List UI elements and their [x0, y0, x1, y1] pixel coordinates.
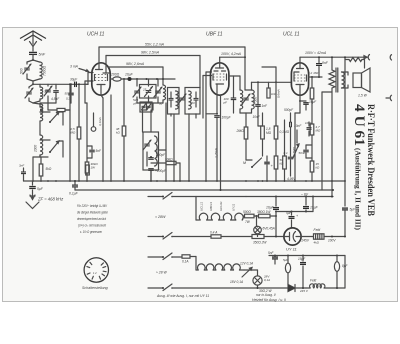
- svg-text:5kΩ: 5kΩ: [46, 167, 52, 171]
- svg-text:s. 10³ Ω gemessen: s. 10³ Ω gemessen: [80, 230, 102, 234]
- field coil Feld: [301, 228, 345, 245]
- svg-text:pF: pF: [223, 100, 228, 104]
- capacitor 30pF series grid UCH: [70, 78, 78, 88]
- svg-text:10nF: 10nF: [253, 115, 261, 119]
- svg-text:8nF: 8nF: [322, 61, 329, 65]
- trimmer 30: [44, 84, 52, 103]
- terminal circle: [91, 113, 96, 131]
- wire x103: [98, 95, 103, 181]
- tube UBF11: [211, 63, 229, 95]
- capacitor 100pF diode: [223, 76, 241, 113]
- svg-text:0,1A: 0,1A: [264, 278, 270, 282]
- resistor 4.7M: [310, 124, 321, 161]
- wire grid to tube UCH: [87, 73, 89, 85]
- wire IF2 top to UCL grid: [252, 67, 292, 90]
- svg-text:Schalterstellung: Schalterstellung: [82, 286, 108, 290]
- svg-text:100V: 100V: [328, 239, 336, 243]
- svg-text:6V0,45A: 6V0,45A: [263, 227, 275, 231]
- svg-text:10μF: 10μF: [266, 206, 275, 210]
- capacitor 100pF cath: [148, 110, 166, 159]
- tube socket diagram: [84, 258, 108, 282]
- svg-text:UCH 11: UCH 11: [87, 32, 105, 38]
- capacitor 8nF: [316, 56, 329, 77]
- capacitor 5nF antenna: [29, 47, 46, 61]
- trimmer between IF1: [179, 97, 185, 99]
- wire x322 speaker return: [322, 92, 332, 190]
- svg-text:UCL 11: UCL 11: [283, 32, 300, 38]
- lamp 6V 0.45A: [254, 216, 275, 237]
- svg-text:100pF: 100pF: [222, 116, 232, 120]
- oscillator trimmer pair: [154, 79, 162, 103]
- output transformer primary: [329, 56, 335, 197]
- mains bus row1 top: [148, 193, 246, 200]
- resistor 5k: [39, 157, 52, 181]
- capacitor 1nF: [253, 82, 269, 126]
- wire antenna to grid line: [32, 81, 34, 84]
- svg-text:10μF: 10μF: [309, 100, 317, 104]
- svg-text:≈ 28 W: ≈ 28 W: [156, 271, 168, 275]
- svg-text:380Ω 1W: 380Ω 1W: [257, 210, 271, 214]
- wire band bottom: [33, 155, 48, 181]
- heater string row2: [196, 257, 244, 271]
- svg-text:UY11: UY11: [232, 203, 236, 211]
- resistor 380ohm 1W: [257, 210, 277, 218]
- svg-text:100pF: 100pF: [156, 153, 166, 157]
- svg-text:98V, 2,6mA: 98V, 2,6mA: [126, 62, 145, 66]
- wire IF2 bottom: [240, 113, 252, 126]
- svg-text:MΩ: MΩ: [71, 131, 76, 135]
- capacitor 10uF ps: [266, 197, 279, 238]
- resistor 1W top: [86, 165, 90, 175]
- lamp row2: [244, 270, 270, 288]
- capacitor 5uF left: [29, 181, 43, 200]
- IF2 coil left: [240, 76, 243, 113]
- resistor 1k grid stopper: [267, 82, 277, 98]
- ground symbol: [26, 196, 39, 209]
- capacitor 0.1uF rail: [69, 180, 79, 196]
- svg-text:100V ≈ 42mA: 100V ≈ 42mA: [305, 51, 327, 55]
- trimmer box lower: [140, 102, 152, 112]
- wire 1.7mA: [215, 95, 221, 190]
- resistor 30k 1W: [85, 103, 98, 181]
- svg-text:2000: 2000: [34, 145, 38, 153]
- svg-text:UY 11: UY 11: [286, 247, 297, 252]
- svg-text:Ausg. III wie Ausg. I, nur mi: Ausg. III wie Ausg. I, nur mit UY 11: [156, 294, 209, 298]
- svg-text:nur in Ausg. II: nur in Ausg. II: [256, 293, 276, 297]
- wire x166 x174: [165, 103, 167, 181]
- fuse 0.1A row2: [182, 255, 196, 264]
- wire x245 drop: [245, 57, 252, 90]
- svg-text:350Ω 2W: 350Ω 2W: [253, 241, 267, 245]
- capacitor 10uF anode: [125, 73, 134, 82]
- resistor 350ohm 2W: [252, 235, 284, 245]
- resistor 1.5M switch: [292, 130, 299, 158]
- svg-text:10μF: 10μF: [125, 73, 134, 77]
- svg-text:0,4 A: 0,4 A: [210, 231, 217, 235]
- node dots anode row: [123, 78, 125, 80]
- capacitor 10nF UCL: [305, 121, 312, 136]
- coil antenna 2: [33, 84, 43, 103]
- heater labels row1: [200, 201, 236, 211]
- wire B+ right rail: [342, 59, 356, 236]
- svg-text:MΩ: MΩ: [266, 131, 272, 135]
- capacitor 100uF: [148, 169, 167, 181]
- svg-text:UCL11: UCL11: [200, 202, 204, 211]
- svg-text:30μF: 30μF: [70, 78, 78, 82]
- switch row2 top: [148, 253, 182, 260]
- coil antenna 3: [33, 103, 43, 112]
- capacitor 5nF row2: [268, 251, 278, 264]
- rail row2 top: [269, 255, 345, 289]
- IF can 1 right: [185, 88, 200, 115]
- svg-text:245V: 245V: [301, 239, 310, 243]
- capacitor 50pF hang: [65, 83, 74, 103]
- svg-text:pF: pF: [133, 102, 138, 106]
- rectifier UY11: [284, 228, 301, 245]
- svg-text:3 mA: 3 mA: [70, 65, 79, 69]
- oscillator coil box lower: [143, 132, 159, 170]
- svg-text:200Ω: 200Ω: [110, 73, 120, 77]
- resistor screen UCL: [310, 77, 314, 124]
- wire 100V 42mA: [300, 51, 370, 63]
- capacitor 5uF ps: [286, 211, 298, 228]
- connector mark right mid: [390, 95, 391, 100]
- svg-text:MΩ: MΩ: [314, 71, 319, 75]
- wire x111: [110, 95, 112, 181]
- capacitor 5nF mid: [87, 146, 102, 158]
- svg-text:100V, 4,2mA: 100V, 4,2mA: [221, 52, 242, 56]
- svg-text:50nF: 50nF: [299, 151, 306, 155]
- hum coil: [344, 56, 365, 68]
- svg-text:12V 0,1A: 12V 0,1A: [240, 262, 253, 266]
- wire x85 lower: [85, 102, 87, 104]
- note text block: [77, 204, 108, 234]
- IF2 coil right: [252, 90, 258, 113]
- svg-text:(Uᵍ²)·Uₘ mit Instrument: (Uᵍ²)·Uₘ mit Instrument: [78, 224, 107, 228]
- svg-text:Feld: Feld: [314, 228, 321, 232]
- IF can 1 left: [168, 88, 180, 115]
- capacitor 500pF: [284, 108, 302, 140]
- svg-text:+100μF: +100μF: [155, 169, 167, 173]
- variable tap row2: [240, 262, 253, 278]
- svg-text:Heizteil für Ausg. I u. II: Heizteil für Ausg. I u. II: [252, 298, 286, 302]
- wire 55V 1.2mA: [99, 43, 245, 64]
- resistor 1.8M: [258, 113, 272, 156]
- capacitor 8uF oval row2: [334, 256, 348, 290]
- svg-text:5nF: 5nF: [39, 53, 46, 57]
- capacitor 0.1uF lower: [284, 140, 294, 176]
- capacitor 5uF oval row2: [283, 256, 291, 285]
- wire x142.5: [142, 110, 144, 132]
- fuse 0.4A row1: [148, 231, 252, 240]
- resistor 50k lower: [274, 156, 284, 181]
- svg-text:0,1: 0,1: [284, 151, 289, 155]
- resistor 0.5M: [71, 83, 81, 181]
- tube UCH11: [92, 63, 110, 95]
- capacitor 4.5nF: [40, 84, 60, 103]
- svg-text:0,6mA: 0,6mA: [277, 89, 281, 98]
- svg-text:15μF: 15μF: [310, 206, 319, 210]
- svg-text:500: 500: [20, 68, 24, 74]
- resistor on y110: [48, 103, 70, 112]
- svg-text:1 2: 1 2: [93, 271, 97, 275]
- svg-text:2MΩ: 2MΩ: [236, 129, 245, 133]
- wire osc bottoms: [137, 103, 163, 110]
- ground bus: [32, 180, 346, 182]
- capacitor 15uF ps: [303, 197, 319, 212]
- trimmer box 25: [140, 79, 157, 102]
- wire UCL grid2: [308, 71, 322, 78]
- wire 100V 4.2mA: [220, 52, 246, 63]
- wire 98V 2.6mA: [109, 62, 164, 85]
- capacitor 50nF mid: [299, 145, 313, 158]
- rail -8V: [246, 193, 333, 198]
- svg-text:ZF = 468 kHz: ZF = 468 kHz: [37, 197, 64, 202]
- svg-text:0,2: 0,2: [308, 71, 313, 75]
- svg-text:3nF: 3nF: [19, 164, 24, 168]
- svg-text:7500: 7500: [254, 97, 258, 104]
- coil band 1: [40, 104, 43, 135]
- variable capacitor 520pF: [133, 79, 142, 106]
- switch M: [243, 158, 262, 168]
- resistor 500ohm 7W: [242, 210, 258, 224]
- svg-text:7500Ω: 7500Ω: [43, 65, 47, 76]
- svg-text:Für 220V~ beträgt Uₐ 96V: Für 220V~ beträgt Uₐ 96V: [77, 204, 108, 208]
- field coil row2: [299, 279, 345, 294]
- svg-text:0,1A: 0,1A: [182, 260, 189, 264]
- capacitor left edge: [19, 164, 33, 182]
- svg-text:100: 100: [190, 101, 195, 105]
- capacitor el +: [264, 156, 273, 181]
- svg-text:UBF11: UBF11: [209, 202, 213, 211]
- switch band 1: [40, 112, 63, 125]
- connector mark top right: [390, 55, 391, 60]
- wire 98V 2.5mA: [106, 51, 200, 89]
- resistor 50k: [151, 158, 180, 182]
- svg-text:M: M: [243, 161, 246, 165]
- svg-text:UBF 11: UBF 11: [206, 32, 223, 38]
- svg-text:4 U 61: 4 U 61: [351, 104, 367, 146]
- switch band 2: [40, 140, 63, 157]
- svg-text:500pF: 500pF: [284, 108, 294, 112]
- rail y211: [275, 211, 313, 213]
- svg-text:245 V: 245 V: [299, 289, 309, 293]
- svg-text:≈ 28W: ≈ 28W: [155, 215, 166, 219]
- svg-text:500Ω: 500Ω: [243, 210, 251, 214]
- svg-text:98V, 2,5mA: 98V, 2,5mA: [141, 51, 160, 55]
- transformer secondary: [342, 72, 349, 88]
- trimmer IF2: [243, 97, 249, 99]
- resistor 200 ohm: [110, 73, 175, 82]
- svg-text:15μF: 15μF: [298, 257, 306, 261]
- resistor 15k: [310, 161, 320, 181]
- capacitor 10uF UCL cathode: [295, 95, 317, 181]
- resistor 0.1M: [274, 82, 289, 156]
- svg-text:5μF: 5μF: [283, 258, 288, 262]
- speaker: [353, 68, 370, 98]
- capacitor 15uF row2: [298, 256, 306, 290]
- label 3mA arrow: [70, 65, 89, 72]
- resistor 2M: [236, 126, 248, 160]
- wire x70 x79: [65, 83, 71, 181]
- wire x206: [205, 72, 207, 181]
- wire grid bus y84: [33, 83, 88, 85]
- coil band 2: [34, 135, 43, 157]
- svg-text:1,7mA: 1,7mA: [215, 147, 219, 158]
- svg-text:+: +: [296, 214, 298, 218]
- svg-text:30: 30: [44, 90, 48, 94]
- tube UCL11: [291, 63, 308, 95]
- border frame: [3, 28, 398, 302]
- antenna: [20, 31, 46, 47]
- svg-text:0,1μF: 0,1μF: [69, 192, 79, 196]
- oscillator coil 2: [159, 85, 166, 106]
- transformer core: [336, 68, 338, 92]
- svg-text:UCH11: UCH11: [219, 201, 223, 211]
- svg-text:4kΩ: 4kΩ: [314, 241, 320, 245]
- svg-text:50: 50: [65, 92, 69, 96]
- wire x332 join: [331, 236, 333, 238]
- svg-text:55V, 1,2 mA: 55V, 1,2 mA: [145, 43, 165, 47]
- label 30ohm: [256, 289, 276, 297]
- wire anode drop x124: [123, 79, 125, 126]
- variable capacitor 500 (antenna): [20, 60, 34, 81]
- capacitor 100pF UBF cathode: [206, 95, 232, 181]
- svg-text:4,1mA: 4,1mA: [98, 117, 102, 126]
- resistor 38k: [116, 126, 126, 181]
- svg-text:die übrigen Meßwerte gelten: die übrigen Meßwerte gelten: [77, 211, 108, 215]
- heater string row1: [196, 197, 243, 221]
- svg-text:18V 0,1A: 18V 0,1A: [230, 280, 243, 284]
- bus row2 bottom: [148, 284, 288, 291]
- wire x313: [312, 197, 314, 212]
- rail y190: [75, 189, 333, 191]
- svg-text:MΩ: MΩ: [316, 129, 321, 133]
- svg-text:dementsprechend zurück: dementsprechend zurück: [77, 217, 106, 221]
- svg-text:(Ausführung I, II und III): (Ausführung I, II und III): [354, 148, 362, 231]
- node antenna junction: [32, 59, 34, 61]
- resistor 0.2M lower: [283, 120, 287, 181]
- svg-text:4,5nF: 4,5nF: [51, 97, 60, 101]
- variable capacitor antenna 2: [25, 84, 33, 103]
- wire IF1 bottoms: [171, 114, 196, 181]
- svg-text:5μF: 5μF: [37, 187, 44, 191]
- diode row2: [288, 285, 306, 292]
- svg-text:Feld: Feld: [310, 279, 316, 283]
- svg-text:1,5 W: 1,5 W: [358, 94, 368, 98]
- coil 7500 ohm antenna: [33, 60, 47, 81]
